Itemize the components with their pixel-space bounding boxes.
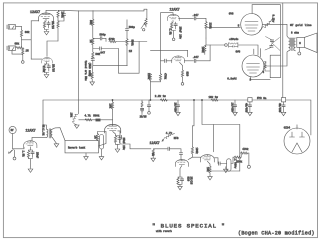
recovery output [118, 131, 120, 135]
grid wire [13, 147, 24, 149]
svg-text:10k: 10k [109, 104, 113, 109]
filter cap 40uF (left) [249, 102, 251, 105]
svg-text:25/25: 25/25 [51, 21, 55, 29]
parallel RC in drive line [229, 43, 238, 48]
input jack J1 [7, 25, 16, 29]
.047 branch [93, 48, 99, 50]
tube B plate feed [212, 125, 214, 152]
tank output to grid [99, 132, 107, 147]
heater wire [251, 77, 271, 79]
svg-text:500k: 500k [131, 40, 135, 47]
resistor 10k below rail [112, 100, 114, 102]
ground (dropper) [75, 125, 80, 128]
junction terminal [225, 44, 228, 47]
ground terminal (speaker) [298, 47, 300, 52]
svg-text:1M: 1M [129, 50, 133, 53]
svg-text:25uF 25v: 25uF 25v [178, 27, 181, 40]
output transformer [289, 38, 296, 51]
ground (V1A cathode) [44, 32, 49, 35]
grid resistor 220k [205, 22, 207, 29]
svg-text:2.2k 1w: 2.2k 1w [155, 94, 166, 98]
svg-text:470k: 470k [163, 73, 167, 80]
coupling cap .02 [58, 10, 79, 14]
V1A grid wire [31, 20, 39, 22]
right feed verticals [270, 55, 280, 77]
PI output coupling [214, 158, 218, 164]
svg-text:16/450: 16/450 [231, 103, 235, 113]
svg-text:with reverb: with reverb [156, 230, 172, 233]
V2B plate bus [150, 50, 187, 57]
resistor 47k on feed [85, 119, 92, 121]
ground (V1B cathode) [44, 75, 49, 78]
cathode NFB wire to pot [210, 170, 240, 172]
svg-text:1.5k: 1.5k [22, 151, 26, 158]
filter cap 40uF (right) [283, 102, 285, 105]
svg-text:.047: .047 [193, 56, 200, 59]
ground (tank) [85, 153, 87, 156]
coupling caps near OT [270, 40, 273, 42]
svg-text:25/25: 25/25 [140, 116, 148, 119]
svg-text:10k: 10k [206, 167, 210, 172]
svg-text:500k: 500k [93, 113, 100, 117]
wires into lower tube top [254, 49, 261, 57]
svg-text:40/450: 40/450 [245, 103, 249, 113]
U wire [118, 42, 139, 74]
svg-text:12AX7: 12AX7 [150, 142, 160, 146]
svg-text:tweed era 50s: tweed era 50s [84, 61, 88, 82]
upper 6V6 grid wire [206, 26, 240, 28]
filter cap 20uF [177, 100, 179, 105]
PI tube B cathode [207, 161, 210, 166]
plate wire to primary [32, 137, 47, 141]
svg-text:500p: 500p [100, 34, 107, 37]
svg-text:1.5k: 1.5k [42, 66, 46, 73]
svg-text:8k:1.3k: 8k:1.3k [42, 125, 46, 136]
svg-text:1.5k: 1.5k [168, 29, 172, 36]
filter cap 16uF [234, 100, 236, 105]
top rail B+ [79, 9, 147, 11]
svg-text:56k: 56k [89, 20, 93, 25]
grid resistor 100k (lower) [205, 38, 207, 45]
stage feed box wire [161, 13, 174, 74]
dropper resistor 470k to jack [240, 125, 241, 154]
grid series cap [179, 153, 182, 155]
B+ drop to transformer [43, 100, 47, 129]
svg-text:8 ohm: 8 ohm [291, 30, 299, 34]
tube V2B (dome) [172, 56, 185, 63]
wire to OT top [252, 4, 280, 6]
plate resistor 100k [57, 11, 59, 18]
resistor (lower 100k) [57, 21, 59, 28]
svg-text:+20vdc: +20vdc [229, 37, 239, 41]
drive wire to lower 6V6 [206, 44, 225, 46]
reverb driver transformer [47, 129, 53, 138]
svg-text:5Y3 3a: 5Y3 3a [257, 97, 267, 100]
svg-text:20/450: 20/450 [174, 103, 178, 113]
coupling pill cap .1 600v [227, 159, 231, 171]
svg-text:220k: 220k [209, 23, 213, 30]
V2A cathode network [172, 20, 174, 22]
V2B cathode [180, 62, 183, 70]
resistor 68k (vertical, ch1 grid) [20, 30, 22, 37]
screen feed wire y=119.5 [79, 119, 113, 121]
svg-text:Reverb tank: Reverb tank [68, 146, 86, 150]
svg-text:25uF: 25uF [35, 152, 38, 159]
PI tube A cathode [180, 166, 182, 178]
svg-text:500p: 500p [129, 26, 136, 29]
ground (pill cap) [99, 157, 104, 160]
svg-text:25/25: 25/25 [52, 64, 56, 72]
NFB return wire [239, 153, 241, 171]
plate feed from rail [251, 5, 253, 14]
speaker [297, 37, 305, 47]
svg-text:8: 8 [299, 42, 301, 45]
PI tube B (dome) [200, 155, 214, 162]
cathode terminal (input 1M) [22, 61, 25, 64]
svg-text:GT gold line: GT gold line [290, 23, 312, 27]
svg-text:12AX7: 12AX7 [26, 130, 36, 134]
svg-text:0.1kv: 0.1kv [271, 15, 275, 23]
tube V2A (dome) [167, 14, 179, 20]
svg-text:" BLUES SPECIAL ": " BLUES SPECIAL " [152, 223, 226, 230]
svg-text:1M: 1M [26, 50, 30, 53]
svg-text:250k: 250k [236, 160, 243, 164]
grid junction wire [22, 39, 32, 41]
lower screen resistor [264, 61, 266, 64]
supply rail squares (connectors) [248, 98, 252, 102]
OT primary connections [262, 24, 288, 38]
svg-text:68k: 68k [25, 30, 30, 34]
plate feed from screen wire [112, 120, 114, 125]
V1A cathode resistor 1.5k + bypass cap [45, 19, 47, 21]
decoupling resistor+cap below rail [141, 100, 143, 102]
V1B cathode network [45, 62, 49, 64]
slope resistor 56k [92, 19, 94, 26]
NFB diagonal resistor [162, 140, 164, 142]
ground (reverb cathode) [28, 169, 33, 172]
svg-text:6.3vAC: 6.3vAC [227, 78, 237, 81]
svg-text:GZ34: GZ34 [284, 127, 291, 130]
500k/1M column [126, 20, 128, 29]
svg-text:12AX7: 12AX7 [30, 11, 40, 15]
rail drop to tone stack [92, 11, 94, 20]
svg-text:1M: 1M [88, 73, 91, 77]
output resistor 250k [231, 157, 234, 163]
ground (recovery cathode) [115, 149, 120, 152]
svg-text:.047: .047 [99, 51, 106, 54]
svg-text:10k: 10k [70, 113, 74, 118]
svg-text:6V6: 6V6 [236, 51, 241, 54]
V1A plate wire up [46, 10, 57, 13]
long left vertical from rail to reverb gnd [78, 11, 80, 114]
coupling cap into PI [158, 148, 168, 150]
bleed resistor to ground [91, 66, 94, 72]
decoupling cap (filled) [96, 119, 101, 122]
jack terminal [247, 165, 250, 168]
wire jack1 to junction [16, 26, 22, 30]
screen resistor (diagonal) [262, 21, 271, 29]
PI input network [154, 148, 159, 150]
input jack J2 [7, 46, 16, 50]
svg-text:220k: 220k [147, 73, 151, 80]
svg-text:68k: 68k [15, 42, 20, 46]
ground (transformer secondary) [54, 144, 59, 147]
secondary to tank [52, 128, 65, 141]
grid resistor 1M [96, 134, 98, 141]
reverb jack terminal [13, 157, 16, 160]
twin dropping resistors [149, 74, 151, 81]
mid resistor 1M [92, 38, 94, 45]
rail to rectifier [286, 100, 311, 135]
small triode V1B [31, 58, 42, 60]
svg-text:820: 820 [185, 72, 188, 77]
V1B plate wire [47, 41, 58, 56]
REVERB: footswitch jack RV [9, 126, 16, 133]
reverb tank box [65, 141, 99, 153]
PI tube A (dome) [175, 159, 188, 166]
PI wire over to PS [202, 100, 240, 125]
B+ rail mid [43, 99, 248, 101]
tube V1A (dome triode) [39, 13, 54, 21]
svg-text:RV: RV [11, 129, 14, 132]
svg-text:470k: 470k [242, 147, 249, 151]
riser to drive bus [209, 45, 211, 61]
grid bus vertical [30, 21, 32, 59]
reverb driver cathode [29, 147, 31, 151]
svg-text:1M: 1M [94, 136, 97, 140]
svg-text:(Bogen CHA-20 modified): (Bogen CHA-20 modified) [238, 231, 315, 237]
volume pot 500k [146, 9, 148, 18]
lower resistor 56k [92, 52, 94, 59]
svg-text:10k 1w: 10k 1w [209, 95, 219, 99]
svg-text:100k: 100k [201, 47, 205, 54]
recovery tube (dome) [105, 124, 121, 133]
svg-text:NFB: NFB [174, 137, 179, 140]
reverb driver tube (dome) [24, 141, 37, 148]
power tube V4 6V6 (upper) [241, 13, 263, 35]
diagonal resistor to ground [72, 114, 78, 125]
decoupling pill cap [100, 135, 104, 150]
svg-text:40/450: 40/450 [278, 103, 282, 113]
svg-text:100k: 100k [195, 148, 199, 155]
PI plate resistor [192, 100, 194, 147]
svg-text:25/25: 25/25 [190, 177, 194, 185]
coupling cap + terminal below rail [148, 100, 150, 105]
resistor 1M (input grid leak) [22, 47, 24, 49]
V2B grid coupling [161, 60, 165, 62]
svg-text:12AX7: 12AX7 [170, 9, 180, 13]
recovery cathode [113, 132, 116, 136]
svg-text:4: 4 [263, 71, 265, 74]
svg-text:4.7k: 4.7k [85, 113, 92, 117]
svg-text:1M: 1M [89, 40, 92, 44]
svg-text:820: 820 [187, 177, 190, 182]
power tube V5 6V6 (lower) [242, 55, 264, 77]
bass mix wire [93, 65, 128, 67]
wire resistor to grid node [21, 37, 23, 47]
svg-text:6V6: 6V6 [229, 13, 234, 16]
jack2 sleeve ground wire [12, 50, 23, 54]
reverb send pot arrow [9, 149, 14, 153]
svg-text:4.7k: 4.7k [166, 131, 173, 135]
cathode terminal [172, 38, 175, 41]
